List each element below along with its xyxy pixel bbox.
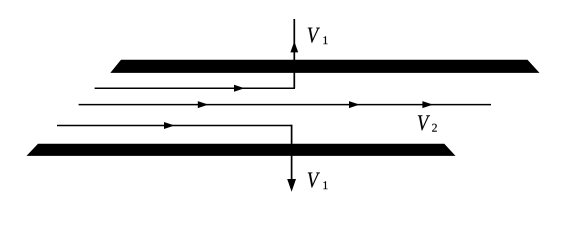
arrowhead on under-plate wire xyxy=(234,85,245,92)
wire vertical through bottom plate xyxy=(291,125,293,188)
wire horizontal under top plate xyxy=(95,87,295,89)
top plate xyxy=(110,60,539,73)
wire vertical through top plate xyxy=(293,19,295,88)
arrowhead 3 on V2 line xyxy=(422,101,433,108)
arrowhead 1 on V2 line xyxy=(198,101,209,108)
wire middle V2 line xyxy=(79,104,491,106)
wire horizontal above bottom plate xyxy=(57,125,292,127)
arrowhead up V1 xyxy=(290,41,298,52)
label V1 top xyxy=(308,28,320,43)
arrowhead on above-plate wire xyxy=(164,122,175,129)
label V2 xyxy=(418,115,430,130)
label V1 bottom xyxy=(308,173,320,188)
arrowhead 2 on V2 line xyxy=(349,101,360,108)
arrowhead down V1 xyxy=(287,179,296,192)
bottom plate xyxy=(27,144,456,156)
label V2 subscript 2 xyxy=(432,124,437,132)
label V1 top subscript 1 xyxy=(323,36,327,44)
label V1 bottom subscript 1 xyxy=(323,181,327,189)
